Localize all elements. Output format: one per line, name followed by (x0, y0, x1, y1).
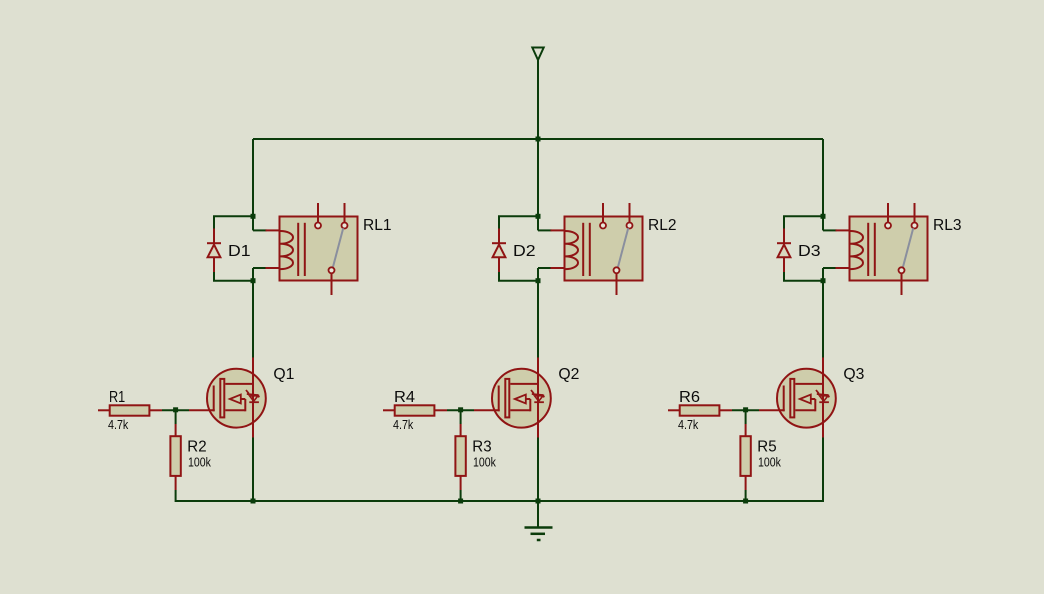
svg-text:D1: D1 (228, 243, 251, 260)
svg-text:RL1: RL1 (363, 217, 392, 234)
resistor R5 (740, 410, 750, 502)
resistor R2 (170, 410, 180, 502)
transistor Q3 (759, 358, 836, 438)
wire coil top to D3 cathode (783, 216, 823, 229)
node coil top junction D3 (821, 214, 826, 219)
svg-text:Q1: Q1 (273, 366, 294, 383)
wire relay to Q3 drain (822, 281, 824, 358)
diode D2 (492, 229, 506, 273)
svg-text:R4: R4 (394, 389, 415, 406)
svg-text:4.7k: 4.7k (678, 417, 699, 432)
node coil top junction D2 (536, 214, 541, 219)
relay RL3 (836, 203, 928, 295)
wire R4 to gate (447, 409, 474, 411)
node ground rail junctions (251, 499, 749, 504)
label RL1 (363, 217, 392, 234)
label R3 (472, 438, 491, 455)
label R6 (679, 389, 700, 406)
wire supply drop to RL1 coil (253, 139, 267, 230)
relay RL1 (266, 203, 358, 295)
wire supply drop to RL2 coil (538, 139, 552, 230)
node gate junction (458, 407, 463, 412)
svg-text:D2: D2 (513, 243, 536, 260)
wire relay to Q2 drain (537, 281, 539, 358)
label RL3 (933, 217, 962, 234)
label Q2 (558, 366, 579, 383)
value 100k (473, 454, 496, 469)
wire D3 anode to coil bottom (783, 272, 823, 281)
label Q3 (843, 366, 864, 383)
label D1 (228, 243, 251, 260)
wire R1 to gate (162, 409, 189, 411)
svg-text:D3: D3 (798, 243, 821, 260)
label R2 (187, 438, 206, 455)
node gate junction (743, 407, 748, 412)
node coil bottom junction D2 (536, 278, 541, 283)
svg-text:4.7k: 4.7k (393, 417, 414, 432)
node coil top junction D1 (251, 214, 256, 219)
resistor R1 (98, 405, 162, 415)
wire coil top to D1 cathode (213, 216, 253, 229)
svg-text:100k: 100k (473, 454, 496, 469)
wire top supply rail (253, 138, 823, 140)
wire coil bottom of RL1 (253, 268, 267, 281)
label D2 (513, 243, 536, 260)
resistor R6 (668, 405, 732, 415)
value 4.7k (108, 417, 129, 432)
svg-text:RL3: RL3 (933, 217, 962, 234)
label R4 (394, 389, 415, 406)
wire D1 anode to coil bottom (213, 272, 253, 281)
resistor R4 (383, 405, 447, 415)
wire Q3 source to ground rail (822, 438, 824, 503)
value 100k (188, 454, 211, 469)
wire coil bottom of RL3 (823, 268, 837, 281)
value 4.7k (393, 417, 414, 432)
node power rail junction (536, 137, 541, 142)
svg-text:R1: R1 (109, 389, 125, 406)
wire coil bottom of RL2 (538, 268, 552, 281)
svg-text:R6: R6 (679, 389, 700, 406)
node gate junction (173, 407, 178, 412)
wire supply drop to RL3 coil (823, 139, 837, 230)
svg-text:R2: R2 (187, 438, 206, 455)
svg-text:100k: 100k (758, 454, 781, 469)
label R5 (757, 438, 776, 455)
wire R6 to gate (732, 409, 759, 411)
wire coil top to D2 cathode (498, 216, 538, 229)
wire ground rail (176, 500, 823, 502)
label Q1 (273, 366, 294, 383)
resistor R3 (455, 410, 465, 502)
wire Q1 source to ground rail (252, 438, 254, 503)
wire D2 anode to coil bottom (498, 272, 538, 281)
ground (525, 501, 553, 540)
wire Q2 source to ground rail (537, 438, 539, 503)
svg-text:R3: R3 (472, 438, 491, 455)
svg-text:4.7k: 4.7k (108, 417, 129, 432)
transistor Q1 (189, 358, 266, 438)
svg-text:RL2: RL2 (648, 217, 677, 234)
label R1 (109, 389, 125, 406)
label RL2 (648, 217, 677, 234)
label D3 (798, 243, 821, 260)
node coil bottom junction D3 (821, 278, 826, 283)
node coil bottom junction D1 (251, 278, 256, 283)
value 4.7k (678, 417, 699, 432)
power symbol VCC (532, 48, 543, 140)
svg-text:100k: 100k (188, 454, 211, 469)
svg-text:R5: R5 (757, 438, 776, 455)
diode D1 (207, 229, 221, 273)
value 100k (758, 454, 781, 469)
transistor Q2 (474, 358, 551, 438)
wire relay to Q1 drain (252, 281, 254, 358)
diode D3 (777, 229, 791, 273)
relay RL2 (551, 203, 643, 295)
svg-text:Q3: Q3 (843, 366, 864, 383)
svg-text:Q2: Q2 (558, 366, 579, 383)
